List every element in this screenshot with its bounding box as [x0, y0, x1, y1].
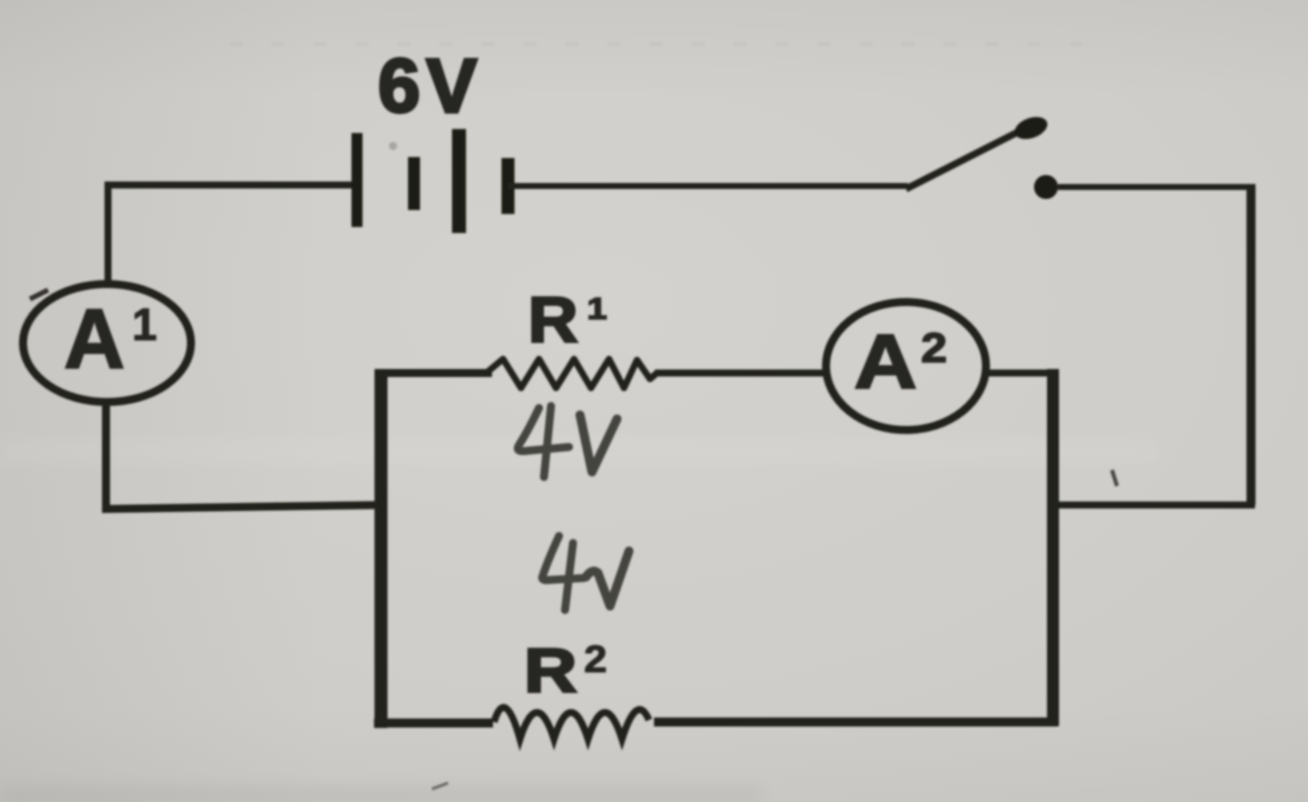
label R2 designator — [524, 637, 607, 706]
right rail of parallel section — [1047, 369, 1059, 726]
svg-text:2: 2 — [584, 639, 607, 681]
stray tick near junction — [1112, 470, 1117, 486]
label 6V battery value — [378, 44, 483, 129]
handwritten 4V value of R1 — [518, 406, 617, 477]
svg-text:A: A — [854, 319, 917, 405]
wire junction to right rail bottom — [1053, 502, 1255, 509]
wire A1 bottom to left rail — [106, 400, 380, 509]
stray dash bottom — [432, 783, 448, 789]
bottom wire left of R2 — [374, 719, 493, 728]
battery B1 plate long left — [352, 133, 363, 227]
svg-text:R: R — [524, 637, 577, 706]
ammeter A2 circle — [826, 302, 986, 430]
switch S1 blade — [906, 113, 1050, 189]
svg-text:R: R — [528, 284, 578, 356]
faint show-through dashes top — [230, 43, 1090, 46]
handwritten 4V between resistors — [542, 536, 629, 610]
wire top-left from battery to A1 top — [108, 185, 354, 288]
svg-text:A: A — [64, 292, 125, 386]
stray faint dot near battery — [389, 142, 397, 150]
resistor R1 zigzag — [485, 359, 657, 388]
wire switch to right rail — [1058, 184, 1252, 190]
switch S1 right terminal dot — [1034, 175, 1058, 199]
right rail wire down — [1247, 184, 1256, 505]
battery B1 plate long right — [452, 129, 466, 233]
label R1 designator — [528, 284, 607, 356]
left rail of parallel section — [375, 369, 388, 728]
wire A1 top drop is above; A1 ammeter circle — [23, 284, 191, 402]
battery B1 plate short right — [502, 158, 515, 214]
svg-text:2: 2 — [921, 324, 947, 371]
wire left rail to R1 — [375, 369, 492, 377]
stray tick near A1 — [30, 290, 48, 299]
label A2 ammeter text — [854, 319, 947, 405]
battery B1 plate short — [408, 157, 420, 210]
svg-text:1: 1 — [587, 291, 607, 326]
label A1 ammeter text — [64, 292, 157, 386]
wire battery to switch — [508, 183, 908, 189]
wire A2 to right parallel rail corner — [984, 370, 1057, 377]
svg-text:6V: 6V — [378, 44, 483, 129]
resistor R2 zigzag — [494, 707, 649, 739]
svg-text:1: 1 — [132, 299, 157, 350]
wire R1 to A2 — [655, 370, 830, 377]
bottom wire right of R2 — [654, 718, 1058, 727]
